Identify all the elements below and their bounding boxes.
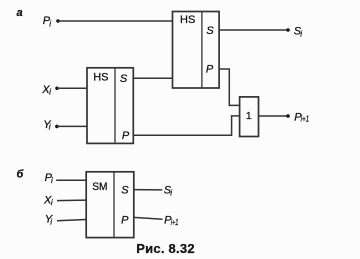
- node Pi+1 output terminal: [286, 112, 309, 124]
- label Yi (part b input): [45, 214, 53, 227]
- svg-text:i+1: i+1: [171, 218, 179, 227]
- svg-text:i+1: i+1: [301, 114, 310, 123]
- wire Xi to SM: [57, 199, 86, 202]
- svg-text:S: S: [121, 185, 129, 197]
- wire SM.S to Si label: [134, 189, 163, 191]
- label Pi (part b input): [45, 172, 53, 185]
- node Xi input terminal: [41, 84, 59, 97]
- svg-text:a: a: [17, 7, 23, 19]
- label Pi+1 (part b output): [164, 215, 178, 228]
- svg-text:i: i: [50, 218, 52, 227]
- svg-text:SM: SM: [92, 181, 107, 193]
- wire OR gate output to Pi+1 terminal: [259, 115, 289, 117]
- wire Yi to HS1 input: [57, 125, 87, 127]
- wire HS1.S to HS2 input: [133, 77, 172, 79]
- svg-text:S: S: [206, 25, 214, 37]
- wire Pi to SM: [56, 179, 86, 181]
- svg-text:HS: HS: [180, 14, 195, 26]
- label Xi (part b input): [43, 194, 53, 207]
- wire Pi to HS2 input: [58, 20, 173, 22]
- svg-text:i: i: [51, 176, 53, 185]
- svg-text:P: P: [206, 64, 214, 76]
- svg-text:S: S: [120, 73, 128, 85]
- node Yi input terminal: [43, 119, 58, 132]
- OR gate U3 (block 1): [240, 97, 259, 137]
- node Si output terminal: [286, 26, 302, 39]
- half-adder HS2 (top HS block): [173, 12, 220, 89]
- half-adder HS1 (lower-left HS block): [87, 68, 133, 144]
- svg-text:i: i: [49, 123, 51, 132]
- label Si (part b output): [164, 185, 173, 198]
- full adder SM: [86, 172, 134, 238]
- wire HS2.S to Si terminal: [219, 29, 288, 31]
- svg-text:i: i: [49, 19, 51, 28]
- svg-text:1: 1: [246, 110, 252, 122]
- svg-text:Рис. 8.32: Рис. 8.32: [136, 241, 195, 256]
- wire Xi to HS1 input: [57, 87, 87, 89]
- wire HS2.P to OR gate input A: [219, 69, 240, 105]
- svg-text:б: б: [17, 168, 25, 180]
- svg-text:i: i: [170, 188, 172, 197]
- svg-text:P: P: [122, 130, 130, 142]
- svg-text:i: i: [49, 88, 51, 97]
- svg-text:HS: HS: [93, 71, 108, 83]
- wire Yi to SM: [57, 220, 86, 221]
- svg-text:P: P: [121, 214, 129, 226]
- svg-text:i: i: [300, 29, 302, 38]
- wire SM.P to Pi+1 label: [134, 217, 163, 219]
- wire HS1.P to OR gate input B: [133, 116, 239, 135]
- svg-text:i: i: [51, 198, 53, 207]
- node Pi input terminal (part a): [43, 15, 60, 28]
